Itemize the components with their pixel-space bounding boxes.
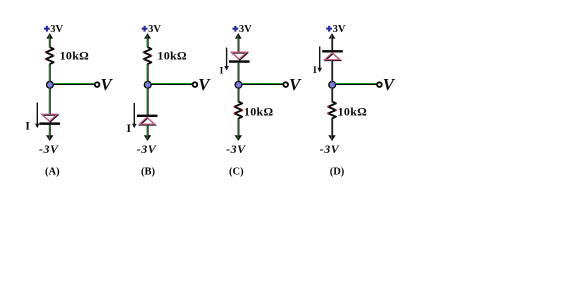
svg-text:V: V [101, 75, 114, 94]
svg-text:-3V: -3V [226, 142, 246, 156]
svg-text:-3V: -3V [39, 142, 59, 156]
svg-text:-3V: -3V [320, 142, 340, 156]
svg-text:10kΩ: 10kΩ [157, 49, 187, 63]
svg-text:10kΩ: 10kΩ [244, 105, 274, 119]
svg-text:(C): (C) [229, 167, 244, 178]
svg-text:V: V [383, 75, 396, 94]
svg-text:I: I [220, 67, 224, 77]
svg-text:3V: 3V [50, 24, 63, 35]
svg-text:10kΩ: 10kΩ [60, 49, 90, 63]
svg-text:V: V [289, 75, 302, 94]
svg-text:(A): (A) [45, 167, 60, 178]
svg-text:(D): (D) [330, 167, 345, 178]
svg-text:I: I [313, 66, 317, 76]
svg-text:V: V [198, 75, 211, 94]
svg-text:3V: 3V [333, 24, 346, 35]
svg-text:I: I [25, 120, 30, 132]
svg-text:3V: 3V [239, 24, 252, 35]
svg-text:-3V: -3V [137, 142, 157, 156]
svg-text:3V: 3V [148, 24, 161, 35]
svg-text:10kΩ: 10kΩ [338, 105, 368, 119]
svg-text:(B): (B) [141, 167, 156, 178]
svg-text:I: I [127, 123, 132, 135]
